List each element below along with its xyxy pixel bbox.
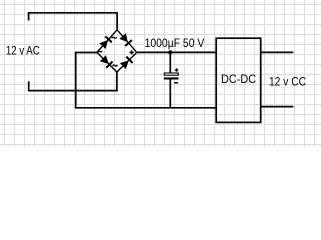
svg-text:12 v AC: 12 v AC xyxy=(6,45,40,58)
svg-text:1000µF 50 V: 1000µF 50 V xyxy=(145,37,205,50)
svg-text:DC-DC: DC-DC xyxy=(221,73,256,86)
svg-text:12 v CC: 12 v CC xyxy=(269,76,306,89)
